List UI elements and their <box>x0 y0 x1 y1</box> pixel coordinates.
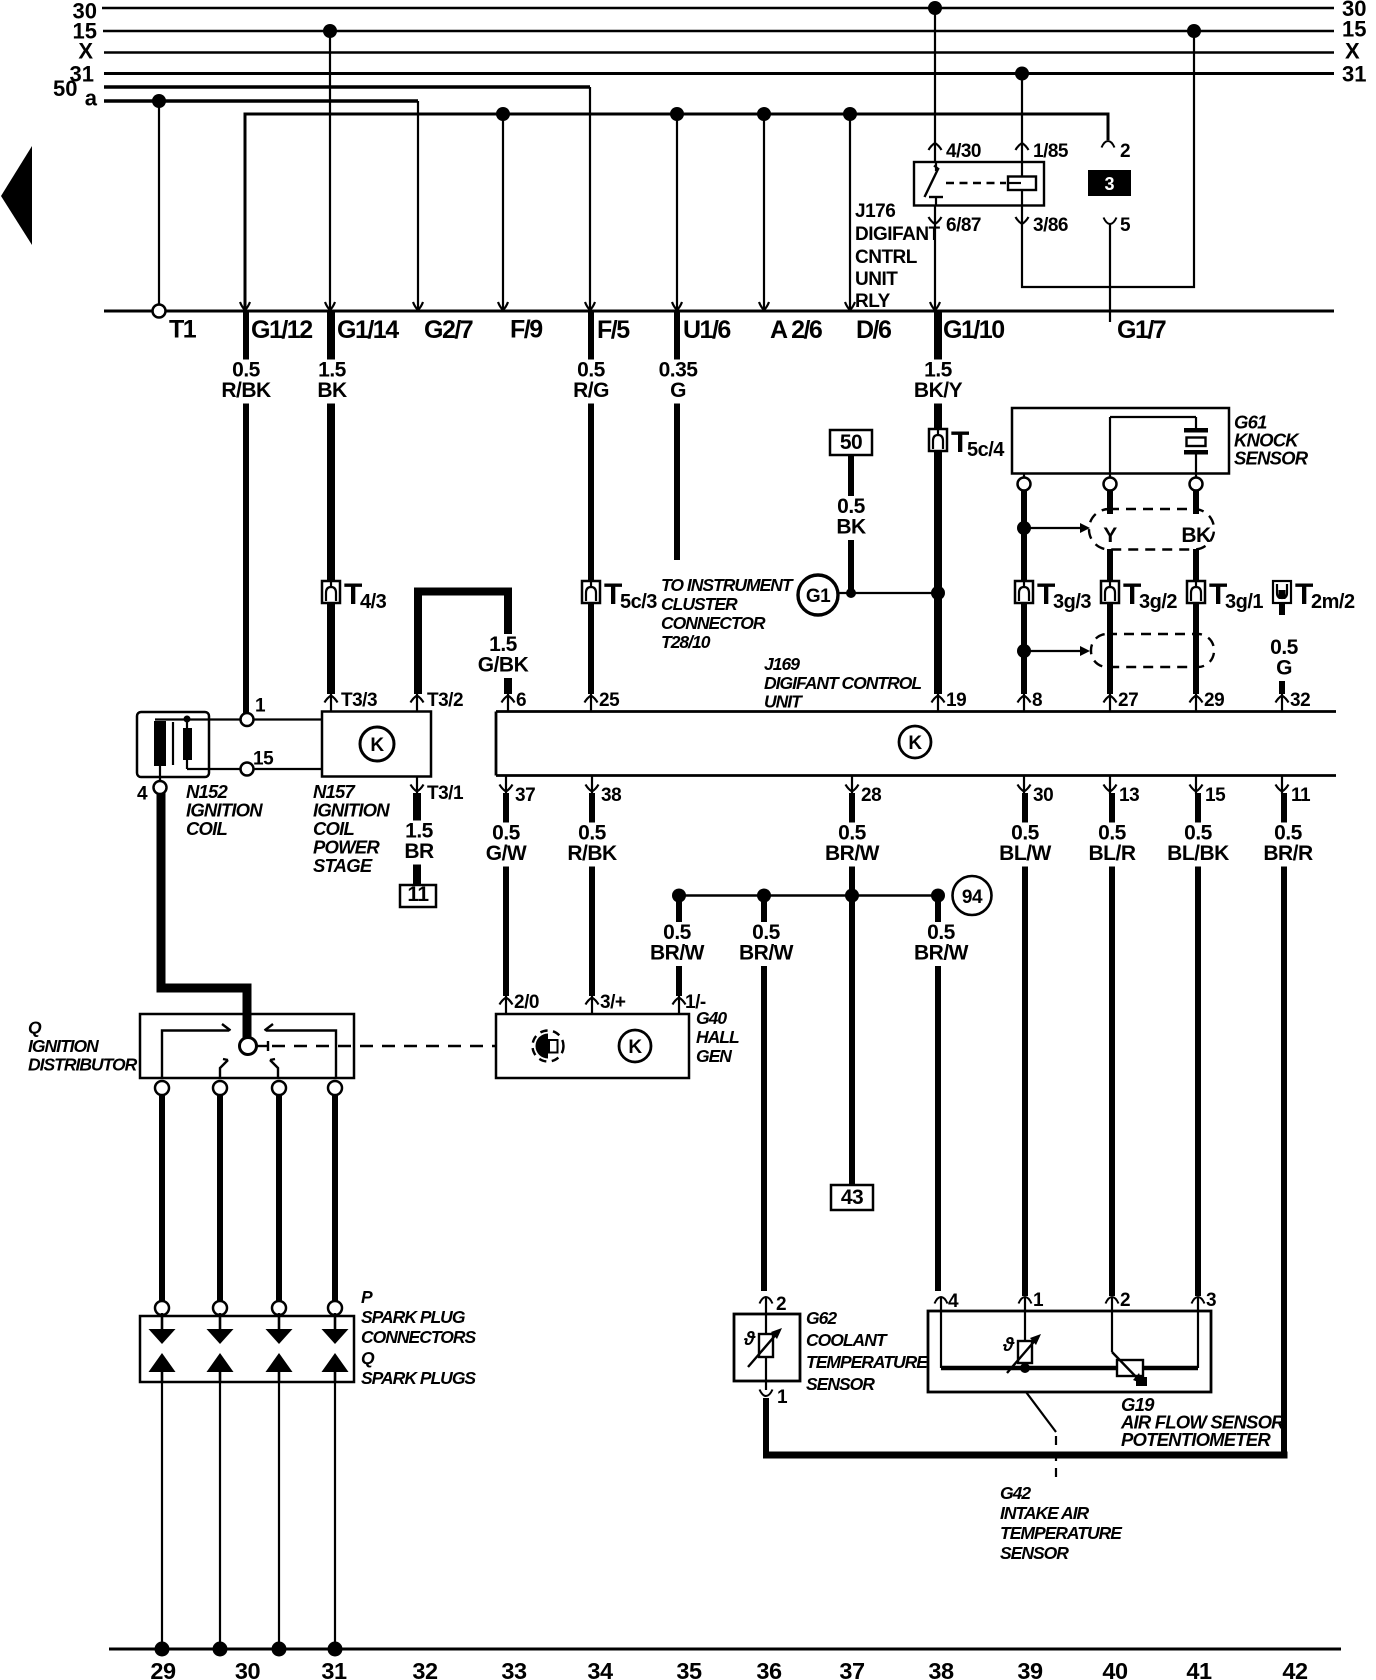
svg-text:50: 50 <box>840 431 862 454</box>
current track box 3 <box>1088 170 1131 196</box>
shield branch lower <box>1017 644 1090 658</box>
wire relay 3/86 to bus 15 <box>1022 24 1201 287</box>
svg-text:K: K <box>370 735 384 756</box>
svg-text:R/G: R/G <box>573 379 609 402</box>
svg-text:29: 29 <box>150 1658 176 1680</box>
svg-text:BR/W: BR/W <box>739 942 794 965</box>
label to instrument cluster <box>661 575 794 652</box>
wire 0.5 BR/R pin11 <box>1261 793 1316 1452</box>
spark plug arrow 3 <box>266 1353 293 1372</box>
wire 1.5 BR N157 T3/1 <box>398 793 441 885</box>
label G19 <box>1120 1394 1285 1450</box>
svg-text:11: 11 <box>407 883 429 906</box>
distributor rotor <box>240 1038 269 1055</box>
J169 top pin 32 <box>1276 690 1311 712</box>
svg-text:5: 5 <box>1120 215 1131 236</box>
bus line 50 <box>53 76 590 101</box>
svg-text:CNTRL: CNTRL <box>855 247 918 268</box>
G40 terminal 3/+ <box>586 992 626 1015</box>
svg-text:Q: Q <box>28 1018 42 1038</box>
svg-text:F/9: F/9 <box>510 316 542 344</box>
svg-text:G62: G62 <box>806 1308 837 1328</box>
svg-text:30: 30 <box>1033 785 1053 806</box>
N157 K symbol <box>360 727 394 761</box>
terminal G1/10 <box>930 302 1004 344</box>
N157 terminal T3/3 <box>325 690 378 712</box>
track dot 1 <box>155 1642 170 1657</box>
svg-text:R/BK: R/BK <box>221 379 271 402</box>
relay terminal 6/87 <box>929 215 981 236</box>
bus line 31 <box>70 62 1367 87</box>
svg-text:BL/R: BL/R <box>1089 842 1136 865</box>
J169 bottom pin 28 <box>846 776 882 807</box>
J169 bottom pin 11 <box>1276 776 1312 807</box>
junction dot D/6 <box>843 107 857 121</box>
svg-text:X: X <box>1345 39 1360 64</box>
label Q ignition distributor <box>28 1018 138 1075</box>
svg-text:3/+: 3/+ <box>600 992 626 1013</box>
svg-text:INTAKE AIR: INTAKE AIR <box>1000 1503 1090 1523</box>
svg-text:G/W: G/W <box>486 842 527 865</box>
J169 top pin 8 <box>1018 690 1043 712</box>
HT wire 1 <box>159 1095 165 1301</box>
wire T1 to bus a <box>152 94 166 304</box>
svg-text:38: 38 <box>601 785 621 806</box>
G42 leader line <box>1026 1392 1056 1478</box>
label G42 intake air temperature sensor <box>1000 1483 1123 1563</box>
J169 top pin 19 <box>932 690 967 712</box>
left margin arrow marker <box>1 146 32 245</box>
wire spark plug 2 to track <box>219 1382 221 1649</box>
wire 0.5 BR/W to G62 pin2 <box>739 898 794 1291</box>
svg-text:37: 37 <box>839 1658 865 1680</box>
svg-text:BK: BK <box>836 516 866 539</box>
svg-text:G40: G40 <box>696 1008 727 1028</box>
label N157 <box>313 781 390 876</box>
svg-text:3: 3 <box>1206 1290 1216 1311</box>
svg-text:4/3: 4/3 <box>360 591 387 613</box>
connector T2m/2 <box>1273 578 1355 613</box>
svg-text:Q: Q <box>361 1348 375 1368</box>
svg-text:34: 34 <box>587 1658 613 1680</box>
distributor contact c <box>270 1059 278 1078</box>
node 94 <box>953 876 992 915</box>
svg-text:2/0: 2/0 <box>514 992 539 1013</box>
wire relay 6/87 to G1/10 <box>934 205 936 311</box>
svg-text:ϑ: ϑ <box>743 1329 756 1350</box>
junction dot U1/6 <box>670 107 684 121</box>
HT wire 3 <box>276 1095 282 1301</box>
spark plug connector contact 4 <box>328 1301 342 1315</box>
svg-text:G: G <box>670 379 686 402</box>
svg-text:G1/7: G1/7 <box>1117 316 1166 344</box>
wire 0.5 R/BK pin38 to G40 3/+ <box>565 793 620 996</box>
coil pin 4 contact <box>137 781 167 805</box>
svg-text:IGNITION: IGNITION <box>28 1036 99 1056</box>
wire 0.5 BL/R pin13 to G19 pin2 <box>1085 793 1140 1296</box>
G40 hall sender symbol <box>533 1031 564 1062</box>
HT wire 2 <box>217 1095 223 1301</box>
wire 0.5 BR/W pin28 to track 43 <box>825 793 880 1185</box>
J169 top pin 25 <box>585 690 621 712</box>
svg-text:J169: J169 <box>764 654 800 674</box>
svg-text:5c/4: 5c/4 <box>967 439 1005 461</box>
svg-text:6/87: 6/87 <box>946 215 981 236</box>
G19 terminal 1 <box>1019 1290 1045 1368</box>
wire A2/6 stub <box>763 114 765 309</box>
wire coil pin 4 to distributor rotor <box>161 793 247 1039</box>
connector T3g/1 <box>1187 578 1263 613</box>
wire bus 30 to relay 4/30 <box>928 1 942 162</box>
G40 terminal 2/0 <box>500 992 539 1015</box>
relay terminal 1/85 <box>1016 141 1069 162</box>
terminal T1 <box>153 305 197 344</box>
svg-text:1: 1 <box>255 696 266 717</box>
wire D/6 stub <box>849 114 851 309</box>
svg-text:29: 29 <box>1204 690 1224 711</box>
svg-text:1/85: 1/85 <box>1033 141 1069 162</box>
knock sensor G61 box <box>1012 408 1229 474</box>
relay terminal 3/86 <box>1016 215 1068 236</box>
svg-text:3g/2: 3g/2 <box>1139 591 1177 613</box>
svg-text:SENSOR: SENSOR <box>1234 448 1309 469</box>
svg-text:G2/7: G2/7 <box>424 316 473 344</box>
svg-text:STAGE: STAGE <box>313 855 373 876</box>
terminal G1/14 <box>325 302 399 344</box>
cable sheath oval lower <box>1091 634 1214 667</box>
wire 0.35 G U1/6 to instrument cluster <box>651 312 706 560</box>
svg-text:2: 2 <box>1120 141 1130 162</box>
G62 thermistor <box>743 1328 782 1367</box>
svg-text:G1/10: G1/10 <box>943 316 1004 344</box>
svg-text:35: 35 <box>676 1658 702 1680</box>
svg-text:1: 1 <box>777 1387 788 1408</box>
distributor output contact 2 <box>213 1081 227 1095</box>
svg-text:32: 32 <box>1290 690 1310 711</box>
G19 terminal 2 <box>1106 1290 1131 1352</box>
wire 0.5 BR/W to G40 1/- <box>650 898 705 996</box>
svg-text:G1: G1 <box>806 586 831 607</box>
svg-text:T3/3: T3/3 <box>341 690 377 711</box>
svg-text:50: 50 <box>53 76 77 101</box>
svg-text:30: 30 <box>235 1658 261 1680</box>
svg-text:T3/1: T3/1 <box>427 783 464 804</box>
spark plug arrow 4 <box>322 1353 349 1372</box>
svg-text:D/6: D/6 <box>856 316 891 344</box>
J169 bottom pin 13 <box>1104 776 1140 807</box>
wire knock sensor shield to J169 pin 8 <box>1021 490 1027 694</box>
svg-text:UNIT: UNIT <box>855 269 898 290</box>
ignition coil power stage N157 box <box>322 712 431 777</box>
svg-text:COIL: COIL <box>186 818 227 839</box>
wire 1.5 BK/Y G1/10 to J169 pin 19 <box>911 312 966 694</box>
svg-text:25: 25 <box>599 690 620 711</box>
svg-text:DIGIFANT CONTROL: DIGIFANT CONTROL <box>764 673 921 693</box>
svg-text:32: 32 <box>412 1658 438 1680</box>
svg-text:BL/BK: BL/BK <box>1167 842 1229 865</box>
svg-text:BL/W: BL/W <box>999 842 1051 865</box>
wire relay 5 to G1/7 <box>1109 224 1111 322</box>
G19 terminal 4 <box>935 1291 960 1368</box>
wire spark plug 3 to track <box>278 1382 280 1649</box>
wire U1/6 stub <box>676 114 678 309</box>
shield branch upper <box>1017 521 1090 535</box>
distributor output contact 3 <box>272 1081 286 1095</box>
distributor right arm <box>265 1024 337 1078</box>
G62 terminal 1 <box>760 1357 789 1408</box>
relay terminal 4/30 <box>929 141 981 162</box>
svg-text:G1/14: G1/14 <box>337 316 399 344</box>
wire 0.5 BK from box 50 <box>830 455 873 596</box>
svg-text:3g/1: 3g/1 <box>1225 591 1263 613</box>
svg-text:G1/12: G1/12 <box>251 316 312 344</box>
svg-text:4: 4 <box>948 1291 959 1312</box>
terminal G1/12 <box>240 302 312 344</box>
svg-text:J176: J176 <box>855 201 895 222</box>
svg-text:SPARK PLUGS: SPARK PLUGS <box>361 1368 476 1388</box>
spark plug arrow 2 <box>207 1353 234 1372</box>
svg-text:11: 11 <box>1291 785 1311 806</box>
svg-text:ϑ: ϑ <box>1002 1335 1015 1356</box>
svg-text:TEMPERATURE: TEMPERATURE <box>806 1352 929 1372</box>
svg-text:33: 33 <box>501 1658 527 1680</box>
wire 1.5 G/BK T3/2 to J169 pin 6 <box>418 592 530 695</box>
svg-text:TEMPERATURE: TEMPERATURE <box>1000 1523 1123 1543</box>
wire 0.5 R/BK G1/12 to coil <box>219 312 274 713</box>
terminal G2/7 <box>413 302 473 344</box>
wire sensor ground bus to node 94 <box>672 889 945 903</box>
svg-text:BK: BK <box>1181 524 1211 547</box>
track dot 2 <box>213 1642 228 1657</box>
svg-text:37: 37 <box>515 785 535 806</box>
knock sensor piezo element <box>1110 417 1208 474</box>
svg-text:SENSOR: SENSOR <box>1000 1543 1069 1563</box>
connector T5c/3 <box>582 578 657 613</box>
svg-text:DIGIFANT: DIGIFANT <box>855 224 941 245</box>
svg-text:3: 3 <box>1104 174 1114 194</box>
distributor output contact 4 <box>328 1081 342 1095</box>
svg-text:POTENTIOMETER: POTENTIOMETER <box>1121 1429 1271 1450</box>
relay J176 box <box>914 162 1044 206</box>
svg-text:43: 43 <box>841 1186 863 1209</box>
J169 top pin 27 <box>1104 690 1139 712</box>
svg-text:5c/3: 5c/3 <box>620 591 657 613</box>
svg-text:41: 41 <box>1186 1658 1212 1680</box>
wire 0.5 G/W pin37 to G40 2/0 <box>485 793 528 996</box>
svg-text:36: 36 <box>756 1658 782 1680</box>
spark plug connector arrow 2 <box>219 1313 222 1331</box>
svg-text:4: 4 <box>137 784 148 805</box>
svg-text:BR/W: BR/W <box>914 942 969 965</box>
wire 0.5 BL/BK pin15 to G19 pin3 <box>1165 793 1232 1296</box>
spark plug connector arrow 1 <box>161 1313 164 1331</box>
coil pin 15 contact <box>187 749 322 776</box>
connector T3g/3 <box>1015 578 1091 613</box>
label G61 knock sensor <box>1234 412 1309 469</box>
svg-text:T28/10: T28/10 <box>661 632 711 652</box>
Digifant control unit J169 box <box>496 712 1336 776</box>
svg-text:15: 15 <box>1205 785 1226 806</box>
current track box 43 <box>831 1185 873 1210</box>
G19 terminal 3 <box>1192 1290 1217 1368</box>
svg-text:G: G <box>1276 657 1292 680</box>
svg-text:CLUSTER: CLUSTER <box>661 594 738 614</box>
svg-text:UNIT: UNIT <box>764 692 803 712</box>
wire spark plug 1 to track <box>161 1382 163 1649</box>
bus line 30 <box>73 0 1367 24</box>
ignition coil N152 <box>137 712 241 781</box>
J169 bottom pin 15 <box>1190 776 1227 807</box>
wire F/5 from bus 50 corner <box>589 87 591 309</box>
connector T3g/2 <box>1101 578 1177 613</box>
svg-text:2: 2 <box>776 1294 786 1315</box>
svg-text:K: K <box>628 1037 642 1058</box>
label P spark plug connectors <box>361 1287 476 1347</box>
G19 internal bus <box>941 1363 1198 1373</box>
svg-text:38: 38 <box>928 1658 954 1680</box>
air flow sensor G19 box <box>928 1311 1211 1392</box>
spark plug arrow 1 <box>149 1353 176 1372</box>
coolant temperature sensor G62 box <box>734 1314 800 1381</box>
J169 bottom pin 37 <box>500 776 536 807</box>
G62 terminal 2 <box>760 1294 787 1336</box>
spark plug connector contact 2 <box>213 1301 227 1315</box>
svg-text:X: X <box>78 39 93 64</box>
svg-text:R/BK: R/BK <box>567 842 617 865</box>
wire G1/14 to bus 15 <box>323 24 337 309</box>
label G40 <box>696 1008 739 1066</box>
svg-text:F/5: F/5 <box>597 316 630 344</box>
svg-text:27: 27 <box>1118 690 1138 711</box>
spark plug connector arrow 3 <box>278 1313 281 1331</box>
bus line a <box>85 86 418 111</box>
svg-text:42: 42 <box>1282 1658 1308 1680</box>
label Q spark plugs <box>361 1348 476 1388</box>
relay terminal 2 <box>1102 141 1131 162</box>
terminal U1/6 <box>672 302 730 344</box>
hall generator G40 box <box>496 1014 689 1078</box>
svg-text:Y: Y <box>1103 524 1117 547</box>
spark plug connector contact 3 <box>272 1301 286 1315</box>
svg-text:COOLANT: COOLANT <box>806 1330 888 1350</box>
svg-text:U1/6: U1/6 <box>683 316 730 344</box>
J169 bottom pin 30 <box>1018 776 1054 807</box>
svg-text:31: 31 <box>1342 62 1366 87</box>
wire 0.5 G T2m/2 to J169 pin 32 <box>1263 603 1306 694</box>
svg-text:CONNECTOR: CONNECTOR <box>661 613 766 633</box>
svg-text:G/BK: G/BK <box>478 654 529 677</box>
svg-text:31: 31 <box>321 1658 347 1680</box>
svg-text:HALL: HALL <box>696 1027 739 1047</box>
svg-text:TO INSTRUMENT: TO INSTRUMENT <box>661 575 794 595</box>
wire 0.5 BR/W to G19 pin4 <box>914 898 969 1291</box>
wire knock sensor Y to J169 pin 27 <box>1107 490 1113 694</box>
wire G2/7 from bus a corner <box>417 101 419 309</box>
svg-text:28: 28 <box>861 785 881 806</box>
knock sensor pin contacts <box>1018 474 1203 491</box>
wire G1 to BK/Y junction <box>838 586 946 600</box>
current track box 50 <box>830 430 872 455</box>
G19 intake air temperature sensor G42 thermistor <box>1002 1334 1041 1373</box>
svg-text:4/30: 4/30 <box>946 141 981 162</box>
G40 K symbol <box>619 1030 651 1062</box>
N157 terminal T3/1 <box>411 777 464 805</box>
svg-text:G42: G42 <box>1000 1483 1031 1503</box>
J169 bottom pin 38 <box>586 776 622 807</box>
svg-text:3/86: 3/86 <box>1033 215 1068 236</box>
N157 terminal T3/2 <box>411 690 464 712</box>
terminal A2/6 <box>759 302 822 344</box>
connector T4/3 <box>322 578 387 613</box>
wire 0.5 BL/W pin30 to G19 pin1 <box>998 793 1053 1296</box>
relay J176 coil <box>946 162 1036 206</box>
cable sheath oval Y BK <box>1089 509 1214 550</box>
wire 0.5 R/G F/5 to J169 pin 25 <box>570 312 613 694</box>
svg-text:2: 2 <box>1120 1290 1130 1311</box>
label N152 <box>186 781 263 839</box>
main connector row <box>104 310 1334 313</box>
svg-text:CONNECTORS: CONNECTORS <box>361 1327 476 1347</box>
G40 terminal 1/- <box>673 992 706 1015</box>
track dot 4 <box>328 1642 343 1657</box>
ignition distributor box <box>140 1014 354 1078</box>
svg-text:P: P <box>361 1287 373 1307</box>
svg-text:BK/Y: BK/Y <box>914 379 963 402</box>
bus line 15 <box>73 17 1367 44</box>
svg-text:13: 13 <box>1119 785 1139 806</box>
wire bus 31 to relay 1/85 <box>1015 67 1029 163</box>
spark plug connector contact 1 <box>155 1301 169 1315</box>
relay J176 switch contact <box>925 162 944 206</box>
distributor contact b <box>220 1059 228 1078</box>
terminal F/5 <box>585 302 630 344</box>
svg-text:2m/2: 2m/2 <box>1311 591 1355 613</box>
J169 top pin 29 <box>1190 690 1225 712</box>
svg-text:GEN: GEN <box>696 1046 732 1066</box>
svg-text:BR/W: BR/W <box>825 842 880 865</box>
svg-text:a: a <box>85 86 98 111</box>
label J176 <box>855 201 941 312</box>
wire: net 50/G1-12 distribution, y=114 <box>245 114 1108 309</box>
svg-text:K: K <box>908 733 922 754</box>
svg-text:SENSOR: SENSOR <box>806 1374 875 1394</box>
wire G62 pin1 ground run <box>763 1398 1288 1458</box>
junction dot A2/6 <box>757 107 771 121</box>
svg-text:1: 1 <box>1033 1290 1044 1311</box>
wire knock sensor BK to J169 pin 29 <box>1193 490 1199 694</box>
current track box 11 <box>400 883 436 907</box>
bottom track rail <box>109 1648 1341 1651</box>
junction dot F/9 <box>496 107 510 121</box>
svg-text:SPARK PLUG: SPARK PLUG <box>361 1307 466 1327</box>
label G62 <box>806 1308 929 1394</box>
svg-text:T3/2: T3/2 <box>427 690 463 711</box>
label J169 <box>764 654 921 712</box>
svg-text:RLY: RLY <box>855 291 891 312</box>
terminal F/9 <box>498 302 542 344</box>
wire 1.5 BK G1/14 to N157 T3/3 <box>311 312 354 694</box>
dashed link rotor to hall sender <box>272 1045 496 1047</box>
svg-text:BR/R: BR/R <box>1263 842 1313 865</box>
svg-text:BR/W: BR/W <box>650 942 705 965</box>
distributor output contact 1 <box>155 1081 169 1095</box>
svg-text:6: 6 <box>516 690 526 711</box>
track dot 3 <box>272 1642 287 1657</box>
svg-text:A 2/6: A 2/6 <box>770 316 822 344</box>
J169 K symbol <box>899 726 931 758</box>
svg-text:40: 40 <box>1102 1658 1128 1680</box>
ground node G1 <box>798 575 838 615</box>
